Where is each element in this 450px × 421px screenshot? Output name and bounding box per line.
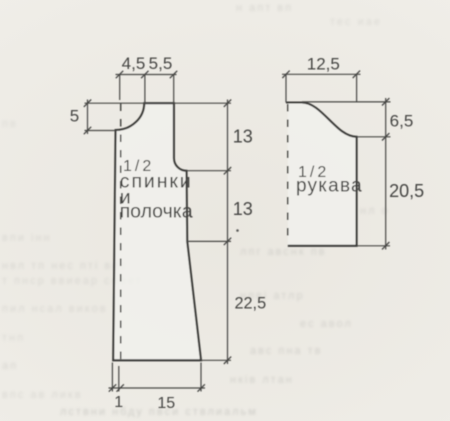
tick sleeve cap top [382,98,389,105]
top dimension line 4,5 / 5,5 [116,74,177,76]
svg-text:12,5: 12,5 [307,54,340,73]
tick sleeve hem [382,242,389,249]
svg-text:20,5: 20,5 [389,181,424,201]
ghost show-through text rows [236,2,293,14]
svg-text:13: 13 [233,199,253,219]
sleeve right dimension line [385,98,387,250]
left dimension line 5 (neck depth) [87,100,89,135]
tick body right top [224,100,231,107]
extension bottom right corner [200,363,202,392]
svg-text:4,5: 4,5 [122,54,146,73]
extension hem right [201,359,231,361]
right dimension line of body [227,100,229,365]
tick sleeve top right [353,71,360,78]
svg-text:5: 5 [70,107,79,126]
body piece interior paper fill [113,103,201,360]
sleeve top dimension line 12,5 [282,73,361,75]
extension sleeve top left [285,74,287,102]
extension waist line [187,240,231,242]
extension line shoulder point [173,75,175,104]
extension line neck bottom [85,130,116,132]
svg-text:15: 15 [157,395,175,412]
sleeve fold line (dashed) [287,104,289,241]
shoulder/neck level long extension line [85,102,232,104]
tick bottom left [109,384,116,391]
tick 5-dim top [84,100,91,107]
svg-text:6,5: 6,5 [390,112,414,131]
tick bottom fold [117,384,124,391]
extension armhole depth line [187,170,231,172]
svg-text:рукава: рукава [296,176,363,197]
extension sleeve cap bottom level [357,136,391,138]
sleeve outline [286,103,357,246]
body fold line (dashed) [120,104,122,361]
extension sleeve cap top level [302,101,391,103]
tick top dim right [170,71,177,78]
tick sleeve top left [282,71,289,78]
tick hem level [224,357,231,364]
svg-text:5,5: 5,5 [149,54,173,73]
svg-text:22,5: 22,5 [234,295,266,313]
tick top dim middle [141,71,148,78]
tick bottom right [198,384,205,391]
extension bottom left corner [111,363,113,392]
tick 5-dim bottom [84,127,91,134]
extension bottom fold [118,366,120,392]
svg-text:13: 13 [233,127,253,147]
sleeve piece interior paper fill [286,103,357,246]
svg-text:спинки: спинки [120,170,193,192]
extension line neck point [144,75,146,104]
bottom dimension line 1 / 15 [109,387,206,389]
tick sleeve cap bottom [382,133,389,140]
svg-text:полочка: полочка [120,201,193,223]
svg-text:1: 1 [114,394,123,411]
tick top dim left [116,71,123,78]
extension line from 4,5 left end down [119,75,121,101]
tick armhole depth [224,167,231,174]
extension sleeve hem [357,245,390,247]
tick waist level [224,238,231,245]
extension sleeve top right [356,74,358,102]
body piece outline [113,103,201,360]
small dot artifact [236,229,239,232]
